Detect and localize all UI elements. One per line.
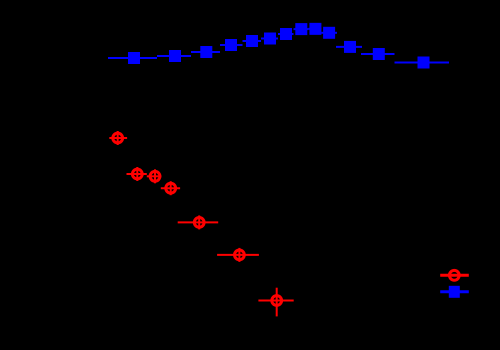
wire: blue hbar p3 — [191, 51, 220, 53]
wire: red hbar c1 — [109, 137, 127, 139]
blue series error bars — [108, 29, 449, 63]
marker: red circle c1 — [113, 133, 123, 143]
marker: red circle c5 — [194, 218, 204, 228]
wire: blue hbar p9 — [308, 28, 321, 30]
wire: red vbar c4 — [170, 181, 172, 195]
wire: blue hbar p11 — [336, 46, 362, 48]
marker: blue square p9 — [309, 23, 321, 35]
marker: blue square p11 — [344, 41, 356, 53]
wire: red vbar c1 — [117, 131, 119, 145]
wire: blue hbar p12 — [361, 53, 395, 55]
wire: blue hbar p6 — [261, 38, 278, 40]
wire: red hbar c5 — [178, 221, 219, 223]
legend red circle — [449, 270, 459, 280]
marker: red circle c3 — [150, 171, 160, 181]
marker: red circle c2 — [132, 169, 142, 179]
wire: red vbar c6 — [238, 248, 240, 262]
wire: blue hbar p8 — [294, 28, 309, 30]
legend red sample line — [440, 274, 469, 277]
marker: red circle c7 — [272, 296, 282, 306]
wire: red vbar c3 — [154, 169, 156, 183]
red series open circle markers — [113, 133, 282, 305]
marker: blue square p1 — [128, 52, 140, 64]
marker: red circle c6 — [235, 250, 245, 260]
wire: red hbar c3 — [147, 175, 162, 177]
wire: blue hbar p1 — [108, 57, 157, 59]
wire: blue hbar p5 — [243, 40, 262, 42]
wire: blue hbar p4 — [220, 44, 243, 46]
legend blue sample line — [440, 290, 469, 293]
marker: blue square p10 — [323, 27, 335, 39]
wire: red hbar c7 — [258, 300, 293, 302]
marker: blue square p8 — [295, 23, 307, 35]
marker: blue square p5 — [246, 35, 258, 47]
wire: blue hbar p7 — [278, 33, 294, 35]
wire: blue hbar p2 — [157, 55, 191, 57]
marker: blue square p2 — [169, 50, 181, 62]
wire: blue hbar p10 — [321, 32, 337, 34]
wire: red hbar c4 — [161, 187, 180, 189]
marker: blue square p4 — [225, 39, 237, 51]
red series error bars — [109, 131, 293, 316]
wire: blue hbar p13 — [395, 62, 450, 64]
marker: blue square p3 — [200, 46, 212, 58]
legend — [440, 270, 469, 297]
marker: red circle c4 — [166, 183, 176, 193]
marker: blue square p6 — [264, 33, 276, 45]
wire: red hbar c6 — [217, 254, 259, 256]
wire: red vbar c2 — [136, 167, 138, 181]
marker: blue square p12 — [373, 48, 385, 60]
wire: red vbar c5 — [198, 215, 200, 229]
wire: red vbar c7 — [276, 288, 278, 317]
legend blue square — [449, 286, 460, 298]
marker: blue square p13 — [418, 57, 430, 69]
blue series square markers — [128, 23, 430, 69]
wire: red hbar c2 — [127, 173, 147, 175]
marker: blue square p7 — [280, 28, 292, 40]
